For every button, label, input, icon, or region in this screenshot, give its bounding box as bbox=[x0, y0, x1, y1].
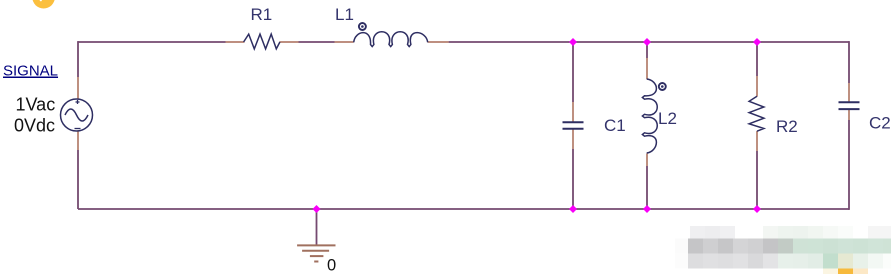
row C bbox=[675, 254, 688, 269]
row B bbox=[675, 239, 688, 254]
svg-text:0: 0 bbox=[327, 257, 336, 274]
wire L2 branch upper bbox=[646, 42, 648, 58]
voltage source minus bbox=[75, 128, 81, 130]
row A bbox=[690, 226, 705, 239]
resistor R2 bbox=[749, 96, 764, 131]
wire ground stub bbox=[316, 209, 318, 245]
junction bottom L2 bbox=[643, 205, 651, 213]
voltage source V1 circle bbox=[61, 99, 93, 131]
pin L2 top bbox=[646, 58, 648, 79]
voltage source plus bbox=[76, 100, 80, 104]
voltage source sine bbox=[65, 109, 88, 121]
wire L2 branch lower bbox=[646, 166, 648, 209]
yellow badge top-left bbox=[32, 0, 55, 9]
svg-text:1Vac: 1Vac bbox=[16, 95, 56, 115]
wire R2 branch upper bbox=[756, 42, 758, 76]
L2 phase dot bbox=[659, 83, 666, 90]
pin C1 top bbox=[572, 102, 574, 122]
wire right vertical upper bbox=[848, 41, 850, 83]
junction top L2 bbox=[643, 38, 651, 46]
svg-text:R2: R2 bbox=[776, 117, 798, 136]
pin L1 right bbox=[428, 41, 449, 43]
row D bbox=[823, 269, 838, 274]
pin C1 bottom bbox=[572, 130, 574, 150]
pin R2 top bbox=[756, 76, 758, 97]
svg-text:C2: C2 bbox=[869, 114, 891, 133]
svg-text:0Vdc: 0Vdc bbox=[14, 116, 55, 136]
svg-text:L1: L1 bbox=[335, 5, 354, 24]
svg-text:SIGNAL: SIGNAL bbox=[3, 63, 58, 80]
capacitor C1 bbox=[563, 122, 584, 128]
pin C2 top bbox=[848, 83, 850, 102]
wire bottom horizontal bbox=[78, 208, 849, 210]
watermark mosaic bbox=[675, 226, 891, 274]
inductor L2 bbox=[642, 79, 657, 153]
pin L2 bottom bbox=[646, 154, 648, 167]
ground symbol bbox=[297, 245, 335, 261]
wire right vertical lower bbox=[848, 120, 850, 210]
svg-text:R1: R1 bbox=[251, 5, 273, 24]
junction top C1 bbox=[569, 38, 577, 46]
pin C2 bottom bbox=[848, 110, 850, 121]
wire top left segment bbox=[78, 41, 226, 43]
inductor L1 bbox=[354, 32, 428, 47]
pin R1 right bbox=[280, 41, 299, 43]
L1 phase dot bbox=[359, 23, 366, 30]
wire top between R1 and L1 bbox=[299, 41, 335, 43]
junction ground bbox=[313, 205, 321, 213]
svg-text:L2: L2 bbox=[658, 109, 677, 128]
pin V1 top bbox=[77, 77, 79, 99]
resistor R1 bbox=[244, 34, 280, 49]
pin L1 left bbox=[335, 41, 354, 43]
junction top R2 bbox=[753, 38, 761, 46]
wire left vertical upper bbox=[77, 41, 79, 77]
wire top right of L1 bbox=[449, 41, 849, 43]
pin R2 bottom bbox=[756, 131, 758, 151]
pin stubs (salmon) bbox=[78, 42, 849, 166]
pin V1 bottom bbox=[77, 131, 79, 150]
wire left vertical lower bbox=[77, 150, 79, 209]
svg-text:C1: C1 bbox=[604, 116, 626, 135]
junction bottom C1 bbox=[569, 205, 577, 213]
pin R1 left bbox=[226, 41, 245, 43]
capacitor C2 bbox=[839, 102, 860, 109]
wire C1 branch lower bbox=[572, 149, 574, 209]
wire C1 branch upper bbox=[572, 42, 574, 102]
junction bottom R2 bbox=[753, 205, 761, 213]
wire R2 branch lower bbox=[756, 151, 758, 209]
